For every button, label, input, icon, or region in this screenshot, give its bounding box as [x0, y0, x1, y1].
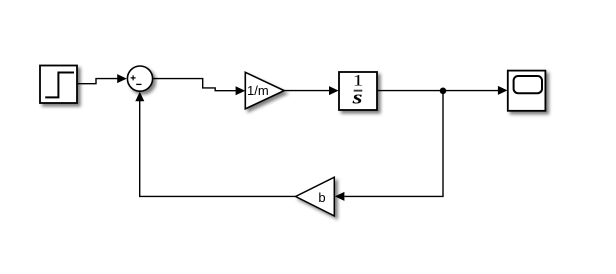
- svg-text:b: b: [318, 190, 325, 205]
- wire sum to gain 1/m: [153, 79, 238, 91]
- arrowhead into scope: [498, 86, 508, 95]
- integrator block 1/s: [339, 72, 377, 110]
- wire step to sum: [78, 79, 120, 84]
- sum junction circle: [127, 66, 152, 91]
- step block waveform icon: [45, 73, 74, 98]
- arrowhead into gain 1/m: [236, 86, 246, 95]
- sum plus sign: [131, 75, 136, 80]
- scope block: [508, 71, 546, 111]
- sum minus sign: [136, 83, 141, 85]
- integrator fraction bar: [354, 90, 363, 92]
- wire integrator to scope: [377, 90, 500, 92]
- arrowhead into sum bottom port: [135, 92, 144, 102]
- svg-text:1/m: 1/m: [247, 83, 269, 98]
- junction node dot: [440, 88, 447, 95]
- arrowhead into sum left port: [117, 74, 127, 83]
- wire junction down and left to gain b: [345, 91, 444, 197]
- wire gain to integrator: [284, 90, 331, 92]
- svg-text:s: s: [352, 87, 363, 108]
- step block Step: [40, 66, 77, 104]
- scope screen: [514, 76, 542, 93]
- arrowhead into gain b right side: [335, 192, 345, 201]
- gain block 1/m: [245, 72, 284, 109]
- arrowhead into integrator: [329, 86, 339, 95]
- wire gain b to sum bottom port: [140, 100, 296, 197]
- gain block b (left pointing): [296, 177, 335, 216]
